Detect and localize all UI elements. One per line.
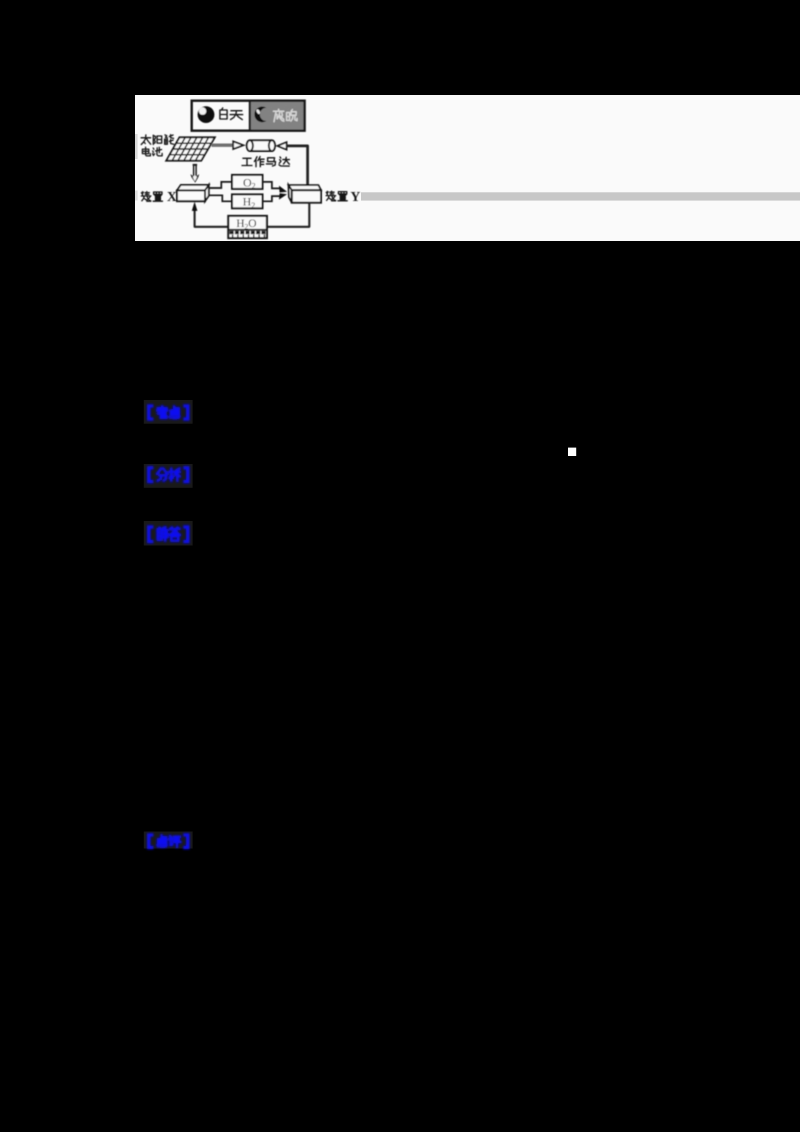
scanned diagram background bbox=[135, 95, 800, 241]
text 太阳能 bbox=[141, 135, 151, 145]
label 【点评】 blue text bbox=[149, 835, 188, 848]
label 【分析】 blue text bbox=[149, 468, 188, 482]
device X box bbox=[177, 185, 209, 201]
wire Y down to H2O bbox=[267, 203, 309, 227]
label 【分析】 highlight background bbox=[144, 464, 193, 488]
text 工作马达 bbox=[242, 158, 252, 165]
moon crescent bbox=[254, 107, 266, 123]
wire X to O2 bbox=[209, 182, 232, 188]
text 电池 bbox=[142, 147, 150, 156]
legend box frame bbox=[192, 101, 305, 131]
wire H2 to Y bbox=[263, 196, 280, 201]
label 装置 Y bbox=[326, 191, 336, 201]
solid arrowhead upper bbox=[279, 186, 287, 193]
svg-text:X: X bbox=[167, 189, 177, 204]
text 白天 bbox=[220, 108, 227, 119]
sun sphere bbox=[198, 106, 215, 123]
svg-text:Y: Y bbox=[351, 189, 361, 204]
label 【考点】 highlight background bbox=[144, 400, 193, 424]
wire O2 to Y bbox=[263, 182, 280, 189]
gray horizontal bar right of device Y bbox=[361, 192, 800, 200]
white square bullet bbox=[568, 448, 576, 456]
solid up arrowhead into X bbox=[192, 202, 198, 211]
wire panel to motor bbox=[212, 143, 234, 146]
electrolyte hatch band bbox=[230, 231, 266, 237]
wire H2O to X riser bbox=[195, 210, 229, 227]
solar panel bbox=[166, 137, 215, 160]
device Y box bbox=[289, 185, 322, 203]
faint gray edge mark lower bbox=[135, 191, 138, 201]
label 【考点】 blue text bbox=[149, 406, 188, 419]
down arrow panel to device X bbox=[190, 164, 199, 183]
label 【点评】 highlight background bbox=[144, 832, 193, 849]
label 装置 X bbox=[141, 192, 151, 202]
H2 box bbox=[232, 194, 263, 208]
open arrowhead right bbox=[233, 141, 243, 149]
O2 box bbox=[232, 175, 263, 189]
wire riser from device Y to motor bbox=[286, 146, 307, 186]
solid arrowhead lower bbox=[279, 193, 287, 199]
open arrowhead into motor right end bbox=[277, 142, 286, 149]
legend night half gray fill bbox=[250, 101, 305, 131]
working motor cylinder bbox=[247, 140, 275, 151]
label 【解答】 highlight background bbox=[144, 521, 193, 546]
label 【解答】 blue text bbox=[149, 527, 188, 542]
wire X to H2 bbox=[209, 195, 232, 201]
text 夜晚 (light on gray) bbox=[273, 109, 297, 122]
H2O tank box bbox=[228, 216, 267, 238]
faint gray edge mark upper bbox=[135, 134, 138, 159]
